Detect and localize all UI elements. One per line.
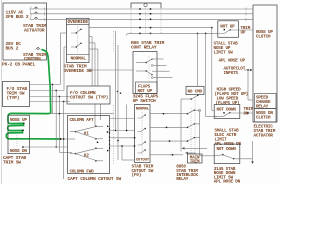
- svg-text:(TYP): (TYP): [7, 95, 20, 101]
- wire 28VDC highlighted green path (energized nose-up trim): [6, 50, 59, 140]
- switch box STAB TRIM OVERRIDE SW: [67, 18, 90, 62]
- relay contact 28VDC row1: [139, 27, 141, 29]
- wire autopilot arrow: [244, 69, 252, 71]
- relay contact 28VDC row2 with coil hook: [126, 33, 140, 35]
- switch arm not up: [224, 29, 225, 30]
- circuit breaker STAB TRIM CONTROL: [37, 47, 39, 49]
- switch box CAPT COLUMN CUTOUT SW: [68, 116, 110, 174]
- switch contacts cutout sw: [141, 112, 143, 155]
- relay R66 STAB TRIM CONT RELAY top bracket: [131, 3, 161, 8]
- node junction at end of green wire: [60, 138, 62, 140]
- svg-text:CUTOUT: CUTOUT: [136, 159, 150, 163]
- svg-text:NOT DOWN: NOT DOWN: [217, 108, 237, 113]
- svg-text:XFR BUS 2: XFR BUS 2: [6, 14, 29, 20]
- switch box 3245 FLAPS UP SWITCH: [133, 52, 157, 94]
- contact tap to flaps switch: [89, 69, 91, 71]
- relay box SPEED CHANGE RELAY: [255, 94, 277, 109]
- svg-text:APL NOSE UP: APL NOSE UP: [219, 58, 246, 63]
- svg-text:CLUTCH: CLUTCH: [256, 116, 271, 121]
- wires cutout sw to interlock relay: [150, 113, 187, 115]
- relay box NO CMD autopilot: [186, 86, 204, 94]
- svg-text:CLUTCH: CLUTCH: [256, 34, 271, 39]
- wire override outputs nest: [89, 27, 212, 29]
- svg-text:LIMIT SW: LIMIT SW: [214, 51, 234, 56]
- wire trim sw aft feed: [51, 113, 114, 115]
- svg-text:NOT UP: NOT UP: [220, 24, 235, 29]
- wire nose dn clutch feed: [247, 112, 248, 113]
- switch box STAB TRIM CUTOUT SW (F0): [135, 105, 151, 163]
- wires middle interconnect: [110, 118, 135, 120]
- svg-text:P6-2 CB PANEL: P6-2 CB PANEL: [2, 62, 36, 68]
- clutch box NOSE DN CLUTCH: [255, 109, 277, 123]
- switch box F/O COLUMN CUTOUT SW (TYP): [67, 86, 110, 104]
- relay contacts on AC lines: [139, 8, 141, 10]
- svg-text:ACTUATOR: ACTUATOR: [254, 134, 274, 139]
- wire capt trim sw to column cutout: [61, 138, 76, 140]
- switch box NOT DOWN 1: [214, 105, 240, 119]
- circuit breaker panel box P6-2: [3, 3, 47, 60]
- svg-text:ACTUATOR: ACTUATOR: [24, 28, 45, 34]
- wire autopilot to speed change relay: [247, 69, 248, 70]
- wire no cmd riser left: [180, 99, 182, 152]
- wire droppers to capt trim sw rows: [51, 85, 53, 114]
- relay 8850 STAB TRIM INTERLOCK RELAY contacts: [190, 108, 192, 154]
- svg-text:NOT DOWN: NOT DOWN: [217, 147, 237, 152]
- svg-text:COLUMN FWD: COLUMN FWD: [70, 170, 95, 175]
- switch box NOT DOWN 2: [214, 144, 240, 164]
- actuator box ELECTRIC STAB TRIM ACTUATOR: [253, 5, 277, 122]
- svg-text:OVERRIDE: OVERRIDE: [68, 19, 89, 25]
- switch contact no cmd: [181, 98, 191, 100]
- svg-text:NOSE UP: NOSE UP: [10, 118, 27, 123]
- svg-text:UP SWITCH: UP SWITCH: [133, 98, 156, 104]
- svg-text:(FLAPS UP): (FLAPS UP): [216, 101, 240, 106]
- wire AC phase lines (115V AC 3-phase to actuator): [39, 8, 254, 10]
- svg-text:OVERRIDE SW: OVERRIDE SW: [64, 68, 92, 74]
- wire no cmd to not down 2: [199, 112, 201, 156]
- svg-text:NO CMD: NO CMD: [188, 90, 203, 95]
- svg-text:TRIM SW: TRIM SW: [3, 159, 21, 165]
- svg-text:CONT RELAY: CONT RELAY: [131, 45, 157, 51]
- switch box NOT UP stall limit: [218, 21, 239, 38]
- svg-text:CONTROL: CONTROL: [24, 56, 42, 62]
- svg-text:(F0): (F0): [132, 173, 142, 178]
- wire not down 2 output: [234, 158, 253, 160]
- switch box F/O STAB TRIM SW (TYP): [3, 82, 30, 107]
- svg-text:COLUMN AFT: COLUMN AFT: [70, 118, 95, 123]
- svg-text:UP: UP: [241, 31, 246, 36]
- svg-text:INPUTS: INPUTS: [224, 71, 239, 76]
- wire riser to not-down limit: [205, 33, 206, 34]
- wire nose dn contact: [23, 146, 68, 148]
- svg-text:APL NOSE DN: APL NOSE DN: [214, 180, 241, 184]
- svg-text:RELAY: RELAY: [256, 105, 269, 110]
- svg-text:NORMAL: NORMAL: [136, 108, 150, 112]
- wire riser 2: [211, 27, 212, 28]
- wire interlock coil arrows: [183, 147, 207, 149]
- svg-text:BUS 2: BUS 2: [6, 46, 19, 52]
- svg-text:CAPT COLUMN CUTOUT SW: CAPT COLUMN CUTOUT SW: [68, 176, 122, 182]
- switch contacts override sw: [77, 26, 79, 56]
- relay coil R66: [144, 3, 147, 6]
- contact nose up: [22, 130, 24, 132]
- wire risers to override sw: [60, 33, 62, 85]
- relay box MAIN TRIM: [188, 154, 203, 163]
- svg-text:DN: DN: [244, 111, 249, 116]
- label NORMAL: [67, 54, 90, 56]
- circuit breakers 3-phase: [30, 7, 32, 20]
- node dots flaps area: [117, 91, 118, 92]
- switch arms flaps up switch: [148, 57, 150, 80]
- svg-text:NOSE DN: NOSE DN: [10, 149, 27, 154]
- switch box CAPT STAB TRIM SW: [8, 115, 30, 154]
- svg-text:NORMAL: NORMAL: [71, 56, 87, 62]
- svg-text:CUTOUT SW (TYP): CUTOUT SW (TYP): [70, 95, 108, 101]
- svg-text:TRIM: TRIM: [190, 159, 200, 164]
- svg-text:RELAY: RELAY: [176, 177, 189, 182]
- wire F/O trim sw outputs: [30, 84, 61, 86]
